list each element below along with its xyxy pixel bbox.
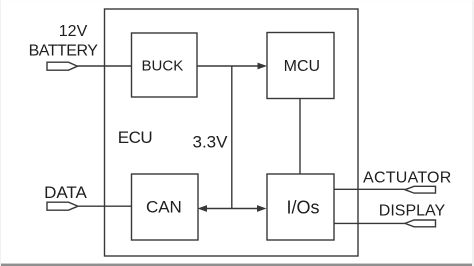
ECU boundary box [105, 9, 359, 256]
svg-text:12V: 12V [59, 23, 88, 40]
block MCU [267, 33, 334, 99]
arrowhead into MCU [258, 63, 268, 70]
svg-text:ACTUATOR: ACTUATOR [363, 170, 452, 187]
svg-text:MCU: MCU [284, 58, 320, 75]
wire 12V battery to BUCK [78, 65, 132, 67]
svg-text:DISPLAY: DISPLAY [379, 203, 446, 220]
svg-text:CAN: CAN [146, 197, 182, 216]
wire I/Os to ACTUATOR [334, 188, 405, 190]
svg-text:BUCK: BUCK [142, 58, 184, 75]
wire MCU to I/Os [299, 99, 301, 175]
svg-text:I/Os: I/Os [286, 197, 319, 217]
port tag DATA [47, 202, 78, 210]
port tag 12V BATTERY [47, 62, 78, 70]
block CAN [132, 174, 199, 240]
svg-text:ECU: ECU [118, 128, 152, 147]
wire BUCK to MCU [197, 65, 259, 67]
arrowhead into CAN [198, 205, 208, 212]
port tag DISPLAY [405, 220, 436, 227]
port tag ACTUATOR [405, 186, 436, 193]
wire I/Os to DISPLAY [334, 222, 405, 224]
svg-text:BATTERY: BATTERY [29, 42, 99, 59]
svg-text:3.3V: 3.3V [193, 133, 229, 152]
block I/Os [267, 174, 334, 240]
wire 3.3V vertical [231, 66, 233, 209]
arrowhead into I/Os [257, 205, 267, 212]
svg-text:DATA: DATA [44, 183, 87, 202]
block BUCK [132, 33, 198, 97]
wire DATA to CAN [79, 205, 132, 207]
wire CAN to I/Os [206, 208, 260, 210]
